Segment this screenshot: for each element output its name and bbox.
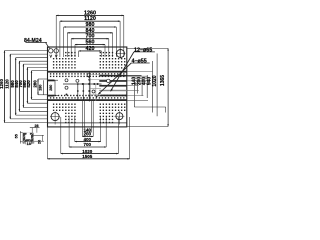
leader 12-o65 diagonal xyxy=(111,52,134,91)
left dimension 980 xyxy=(15,58,48,115)
svg-text:420: 420 xyxy=(86,46,95,52)
top dimension 420 xyxy=(79,50,102,57)
T-slot thin band upper right xyxy=(99,75,127,77)
bottom dimension 140 xyxy=(84,101,91,133)
hole circle on right band xyxy=(107,79,110,82)
inner bottom line xyxy=(48,122,127,124)
right dimension line aux xyxy=(133,80,135,107)
svg-text:18: 18 xyxy=(27,142,31,146)
left dimension 420 xyxy=(31,71,48,100)
top dimension 840 xyxy=(67,32,112,57)
center horizontal line xyxy=(63,83,102,85)
svg-text:55: 55 xyxy=(15,134,19,138)
top dimension 1260 xyxy=(56,15,124,57)
top dimension 1120 xyxy=(60,20,120,57)
svg-text:280: 280 xyxy=(32,80,37,88)
svg-text:280: 280 xyxy=(49,85,53,91)
tie-bar crosshair bottom-right xyxy=(114,111,124,124)
svg-text:4–ø55: 4–ø55 xyxy=(132,58,147,64)
leader 4-o55 diagonal xyxy=(98,63,131,94)
T-slot band upper full xyxy=(48,71,127,73)
left dimension 840 xyxy=(19,61,48,111)
svg-text:12–ø65: 12–ø65 xyxy=(134,47,152,53)
svg-text:1260: 1260 xyxy=(0,79,4,89)
svg-text:28: 28 xyxy=(34,124,38,128)
center bolt dots xyxy=(82,76,99,98)
tie-bar crosshair top-right xyxy=(116,49,126,59)
right dimension line 940 xyxy=(151,61,153,113)
svg-text:1020: 1020 xyxy=(152,75,158,86)
left dimension 560 xyxy=(27,67,48,103)
hole grid dots xyxy=(50,52,126,123)
right dimension line 1020 xyxy=(156,54,158,117)
arrow marks under M24 circles xyxy=(50,55,58,58)
right chain lower routing xyxy=(134,107,165,113)
left dimension 280 xyxy=(37,79,47,95)
right dimension 1365 xyxy=(127,48,169,126)
T-slot stub left upper xyxy=(48,80,55,82)
right dimension line 200 xyxy=(141,79,143,96)
left dimension 700 xyxy=(23,64,48,107)
svg-text:420: 420 xyxy=(26,80,31,88)
bottom dimension 400 xyxy=(75,117,101,142)
center small circles xyxy=(65,74,95,93)
svg-text:20: 20 xyxy=(38,140,42,144)
M24 hole circle A xyxy=(49,49,53,53)
internal dimension 280 left xyxy=(43,80,45,95)
svg-text:280: 280 xyxy=(38,85,42,91)
bottom dimension 1020 xyxy=(61,117,119,154)
tie-bar hole bottom-left xyxy=(51,113,59,121)
tie-bar hole bottom-right xyxy=(116,113,123,120)
top dimension 560 xyxy=(75,44,105,57)
svg-text:700: 700 xyxy=(84,142,92,147)
top dimension 700 xyxy=(71,38,109,57)
svg-text:560: 560 xyxy=(86,40,95,46)
T-slot band right 1 xyxy=(99,80,127,82)
svg-text:84-M24: 84-M24 xyxy=(24,38,42,44)
bottom dimension 700 xyxy=(69,117,106,148)
detail dimension 20 xyxy=(34,135,44,141)
top dimension 980 xyxy=(64,26,117,57)
left dimension 1120 xyxy=(10,54,48,119)
center aux lines xyxy=(89,75,108,102)
right chain extension lines xyxy=(127,72,153,101)
left dimension 1260 xyxy=(4,51,48,123)
T-slot detail section xyxy=(23,133,34,142)
T-slot band right 3 xyxy=(99,95,127,97)
T-slot stub left lower xyxy=(48,95,55,97)
right dimension line 400 xyxy=(146,75,148,98)
T-slot band right 2 xyxy=(99,85,127,87)
M24 hole circle B xyxy=(54,49,58,53)
T-slot band right grey xyxy=(99,90,127,91)
platen plate outline xyxy=(48,47,127,127)
internal dimension 280 xyxy=(50,80,58,95)
svg-text:1365: 1365 xyxy=(160,75,166,86)
tie-bar hole top-right xyxy=(117,50,125,58)
bottom dimension 200 xyxy=(82,101,93,138)
right dimension line 140 xyxy=(136,81,138,94)
T-slot band lower full xyxy=(48,99,127,101)
bottom dimension 1505 xyxy=(47,117,129,160)
center vertical line xyxy=(88,72,90,102)
tie-bar crosshair bottom-left xyxy=(50,112,60,125)
svg-text:1505: 1505 xyxy=(82,154,93,159)
svg-text:400: 400 xyxy=(84,137,92,142)
svg-text:1120: 1120 xyxy=(5,79,10,89)
